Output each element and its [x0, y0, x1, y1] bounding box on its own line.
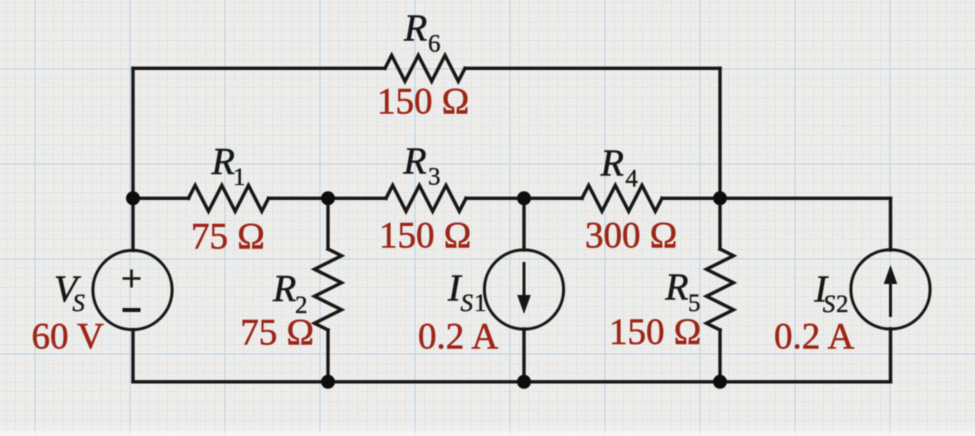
node C — [517, 191, 531, 205]
wire IS2 branch down to circle — [889, 198, 892, 250]
wire left vertical node A to VS — [131, 198, 134, 250]
resistor R4 — [582, 185, 662, 211]
wire node B down to R2 — [326, 198, 329, 249]
wire R4 to node D — [662, 197, 720, 200]
node D bottom — [713, 375, 727, 389]
svg-text:6: 6 — [428, 31, 441, 58]
svg-text:150 Ω: 150 Ω — [377, 82, 469, 123]
wire right vertical from top to node D — [718, 68, 721, 198]
wire IS1 circle to bottom rail — [522, 329, 525, 382]
svg-text:S: S — [72, 290, 85, 317]
resistor R2 — [315, 249, 342, 330]
current source IS1 circle — [484, 250, 563, 329]
resistor R6 — [385, 55, 465, 81]
svg-text:R: R — [402, 141, 426, 183]
node B bottom — [321, 375, 335, 389]
svg-text:75 Ω: 75 Ω — [240, 312, 314, 353]
wire bottom rail — [133, 380, 891, 383]
svg-text:R: R — [600, 143, 624, 185]
wire R5 to bottom rail — [718, 330, 721, 382]
resistor R5 — [707, 249, 734, 330]
svg-text:2: 2 — [836, 291, 849, 318]
svg-text:3: 3 — [428, 164, 441, 191]
wire R1 to node B — [269, 197, 329, 200]
wire left vertical top — [131, 68, 134, 198]
svg-text:1: 1 — [233, 164, 246, 191]
IS2 arrow (up) — [884, 265, 898, 317]
resistor R1 — [189, 185, 269, 211]
svg-text:60 V: 60 V — [32, 317, 105, 358]
wire R2 to bottom rail — [326, 330, 329, 382]
VS minus sign — [123, 308, 141, 312]
wire node A to R1 — [133, 197, 189, 200]
wire node D down to R5 — [718, 198, 721, 249]
svg-text:4: 4 — [625, 166, 638, 193]
node D — [713, 191, 727, 205]
svg-text:0.2 A: 0.2 A — [418, 317, 498, 358]
wire VS bottom to bottom rail — [131, 330, 134, 382]
wire R3 to node C — [466, 197, 524, 200]
wire top-left segment — [133, 67, 385, 70]
VS plus sign — [123, 270, 141, 288]
svg-text:R: R — [272, 268, 296, 310]
wire node C to R4 — [524, 197, 582, 200]
svg-text:150 Ω: 150 Ω — [609, 312, 701, 353]
node B — [321, 191, 335, 205]
node A — [126, 191, 140, 205]
wire node B to R3 — [328, 197, 386, 200]
IS1 arrow (down) — [517, 262, 531, 314]
svg-text:R: R — [664, 266, 688, 308]
resistor R3 — [386, 185, 466, 211]
svg-text:R: R — [403, 8, 427, 50]
wire IS2 circle to bottom rail — [889, 329, 892, 382]
svg-text:1: 1 — [474, 290, 487, 317]
svg-text:150 Ω: 150 Ω — [379, 216, 471, 257]
wire top-right segment — [465, 67, 720, 70]
wire node C down to IS1 — [522, 198, 525, 250]
current source IS2 circle — [851, 250, 930, 329]
svg-text:300 Ω: 300 Ω — [585, 216, 677, 257]
voltage source VS circle — [93, 250, 172, 329]
node C bottom — [517, 375, 531, 389]
svg-text:75 Ω: 75 Ω — [191, 217, 265, 258]
svg-text:S: S — [823, 291, 836, 318]
svg-text:R: R — [211, 141, 235, 183]
svg-text:0.2 A: 0.2 A — [774, 317, 854, 358]
svg-text:S: S — [461, 290, 474, 317]
wire node D to IS2 branch — [720, 197, 891, 200]
